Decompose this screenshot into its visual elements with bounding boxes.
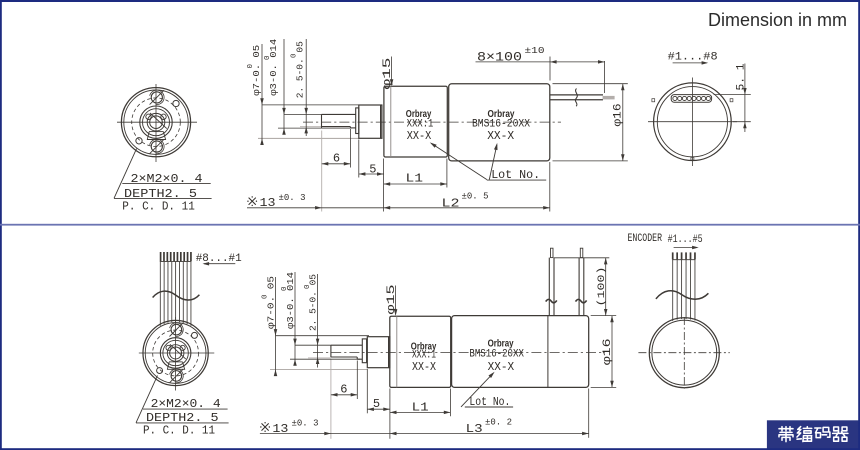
svg-text:φ15: φ15 <box>382 58 394 90</box>
svg-text:2. 5-0. 05: 2. 5-0. 05 <box>309 274 319 331</box>
svg-text:5: 5 <box>369 162 376 176</box>
svg-text:0: 0 <box>304 284 312 289</box>
svg-text:φ7-0. 05: φ7-0. 05 <box>266 276 276 329</box>
svg-text:#1...#5: #1...#5 <box>668 234 703 246</box>
svg-text:±10: ±10 <box>525 46 545 56</box>
svg-text:0: 0 <box>247 64 255 69</box>
svg-text:0: 0 <box>281 286 289 291</box>
svg-text:±0. 5: ±0. 5 <box>462 191 489 201</box>
svg-text:BMS16-20XX: BMS16-20XX <box>469 348 524 360</box>
svg-text:±0. 3: ±0. 3 <box>292 419 319 429</box>
svg-text:8×100: 8×100 <box>477 51 522 65</box>
svg-text:XX-X: XX-X <box>412 360 436 374</box>
svg-text:6: 6 <box>340 382 347 396</box>
svg-text:#8...#1: #8...#1 <box>196 253 242 265</box>
svg-text:φ16: φ16 <box>613 104 625 127</box>
svg-text:0: 0 <box>262 294 270 299</box>
svg-text:±0. 2: ±0. 2 <box>485 418 512 428</box>
svg-text:φ16: φ16 <box>602 338 614 365</box>
svg-text:2×M2×0. 4: 2×M2×0. 4 <box>131 172 203 186</box>
svg-text:XX-X: XX-X <box>407 129 432 143</box>
svg-text:P. C. D. 11: P. C. D. 11 <box>143 424 215 438</box>
svg-text:L1: L1 <box>412 400 429 414</box>
svg-text:13: 13 <box>260 196 276 210</box>
svg-text:#1...#8: #1...#8 <box>668 52 718 64</box>
svg-text:0: 0 <box>264 55 272 60</box>
svg-text:L3: L3 <box>466 422 483 436</box>
svg-text:L2: L2 <box>442 197 460 211</box>
svg-text:5. 1: 5. 1 <box>736 63 748 90</box>
svg-text:ENCODER: ENCODER <box>628 233 663 245</box>
svg-text:0: 0 <box>291 53 299 58</box>
svg-text:L1: L1 <box>406 171 424 185</box>
svg-text:5: 5 <box>373 397 380 411</box>
svg-text:±0. 3: ±0. 3 <box>279 193 306 203</box>
svg-text:φ7-0. 05: φ7-0. 05 <box>252 45 262 96</box>
svg-text:φ3-0. 014: φ3-0. 014 <box>286 272 296 329</box>
svg-text:(100): (100) <box>596 267 608 307</box>
svg-text:XX-X: XX-X <box>487 129 514 143</box>
svg-text:P. C. D. 11: P. C. D. 11 <box>122 200 195 214</box>
svg-text:φ3-0. 014: φ3-0. 014 <box>269 39 279 96</box>
svg-text:6: 6 <box>333 152 340 166</box>
svg-text:XX-X: XX-X <box>488 360 514 374</box>
svg-text:2. 5-0. 05: 2. 5-0. 05 <box>296 41 306 98</box>
svg-text:13: 13 <box>272 422 288 436</box>
